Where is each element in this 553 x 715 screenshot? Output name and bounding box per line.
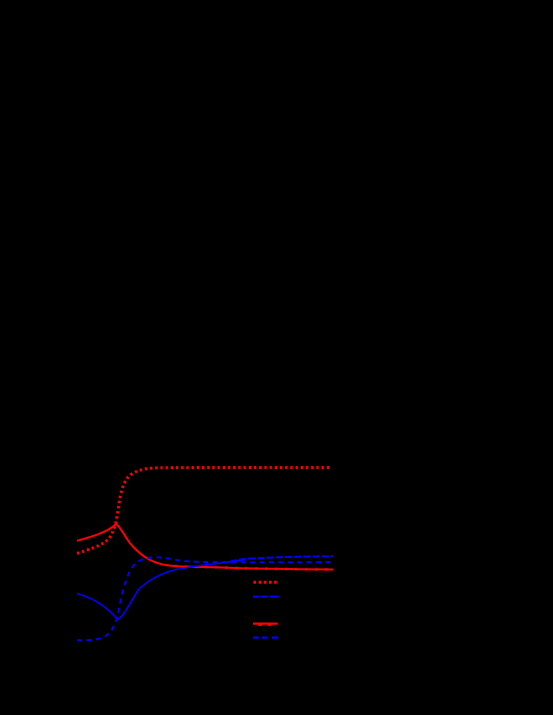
legend sample 1: red dotted line [253, 581, 277, 584]
red dotted curve (S-shaped rise to plateau) [77, 468, 331, 554]
blue long-dash curve (upper right tail) [230, 556, 333, 561]
blue short-dash curve (flat, steep rise, overshoot, settle) [77, 557, 333, 640]
legend sample 3: red solid line with markers [253, 622, 278, 624]
legend sample 4: blue short-dash line [253, 637, 278, 639]
red solid curve markers (small plus ticks) [175, 565, 326, 571]
legend sample 2: blue long-dash line [253, 596, 279, 598]
red solid curve (peak then decay) [77, 524, 333, 570]
blue solid curve (dip then rise) [77, 560, 245, 619]
